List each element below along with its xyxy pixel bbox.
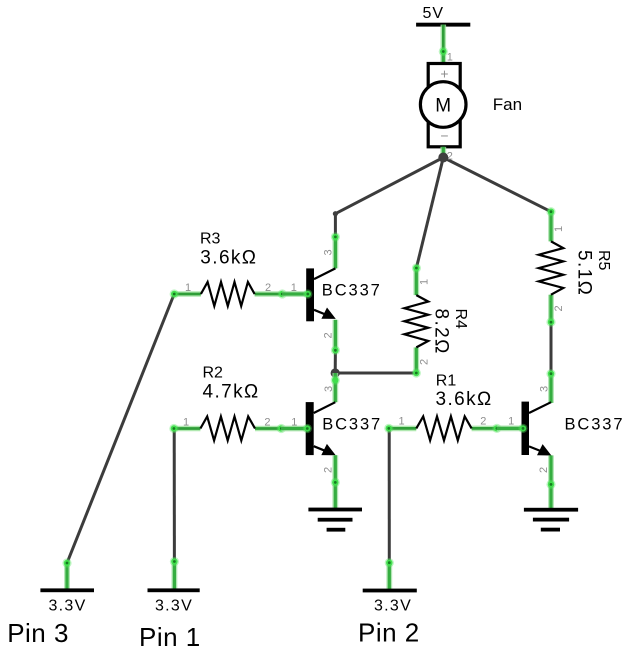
- ground G2: [524, 508, 578, 532]
- svg-text:2: 2: [265, 282, 271, 294]
- svg-text:1: 1: [399, 416, 405, 428]
- resistor R1 label: [436, 372, 493, 409]
- ground G1: [308, 508, 362, 532]
- resistor R4 label (rotated): [431, 309, 469, 355]
- 3.3V supply S2 (Pin 1): [148, 557, 200, 615]
- bend point (Q1 collector branch): [333, 211, 338, 216]
- svg-text:3.3V: 3.3V: [155, 598, 193, 615]
- svg-text:8.2Ω: 8.2Ω: [431, 309, 452, 355]
- resistor R3: [170, 282, 287, 306]
- svg-text:Fan: Fan: [493, 95, 522, 114]
- svg-text:BC337: BC337: [322, 282, 382, 300]
- svg-text:3: 3: [323, 386, 335, 392]
- svg-text:2: 2: [264, 417, 270, 429]
- wire: R1 pin2 to Q3 base: [497, 425, 522, 431]
- svg-text:1: 1: [291, 282, 297, 294]
- wire: junction A to R5 pin1: [443, 158, 551, 212]
- svg-text:R2: R2: [203, 364, 224, 381]
- svg-text:5V: 5V: [423, 5, 445, 22]
- Q3 emitter pin + wire to ground: [546, 455, 555, 509]
- wire: diagonal from R3 pin1 to 3.3V Pin3: [67, 294, 174, 563]
- svg-text:3.3V: 3.3V: [374, 598, 412, 615]
- resistor R5 label (rotated): [574, 250, 612, 296]
- svg-text:R1: R1: [436, 372, 457, 389]
- resistor R4: [404, 263, 428, 377]
- svg-text:2: 2: [480, 416, 486, 428]
- svg-text:3: 3: [323, 249, 335, 255]
- svg-text:M: M: [435, 95, 451, 116]
- Q1 collector pin stub: [331, 232, 340, 268]
- svg-text:BC337: BC337: [565, 415, 625, 433]
- svg-text:3.6kΩ: 3.6kΩ: [200, 247, 257, 268]
- transistor Q3 BC337: [522, 402, 552, 456]
- svg-text:3: 3: [539, 386, 551, 392]
- wire: junction A to R4 pin1: [416, 158, 443, 268]
- transistor Q2 BC337: [306, 402, 336, 455]
- svg-text:−: −: [440, 128, 448, 144]
- svg-text:3.3V: 3.3V: [48, 598, 86, 615]
- wire: bend to Q1 collector pin: [334, 214, 337, 237]
- svg-text:1: 1: [183, 417, 189, 429]
- svg-text:4.7kΩ: 4.7kΩ: [203, 382, 260, 403]
- wire: R3 pin2 to Q1 base: [282, 291, 306, 297]
- svg-text:2: 2: [322, 467, 334, 473]
- junction B: [331, 368, 340, 377]
- wire: R2 pin2 to Q2 base: [281, 426, 305, 432]
- svg-text:1: 1: [508, 416, 514, 428]
- wire: junction B to R4 pin2: [335, 372, 416, 375]
- svg-text:2: 2: [323, 332, 335, 338]
- wire: 5V to motor pin1: [440, 25, 446, 52]
- svg-text:BC337: BC337: [322, 415, 382, 433]
- svg-text:Pin 3: Pin 3: [7, 618, 69, 648]
- svg-text:5.1Ω: 5.1Ω: [574, 250, 595, 296]
- svg-text:Pin 1: Pin 1: [139, 622, 201, 652]
- svg-text:3.6kΩ: 3.6kΩ: [436, 389, 493, 410]
- svg-text:1: 1: [185, 282, 191, 294]
- svg-text:1: 1: [419, 279, 431, 285]
- Q2 emitter pin + wire to ground: [331, 455, 340, 509]
- 3.3V supply S1 (Pin 3): [40, 558, 94, 614]
- svg-text:Pin 2: Pin 2: [358, 618, 420, 648]
- wire: junction A to Q1 collector bend: [335, 158, 443, 214]
- Q3 collector pin stub: [546, 369, 555, 403]
- resistor R5: [539, 207, 564, 327]
- wire: R5 pin2 to Q3 collector pin: [550, 322, 553, 374]
- motor M1 (Fan): [420, 64, 466, 147]
- svg-text:+: +: [440, 66, 448, 82]
- motor pin1 stub: [439, 47, 448, 65]
- svg-text:1: 1: [447, 52, 453, 64]
- wire: vertical from R1 pin1 down to 3.3V Pin2: [388, 428, 391, 562]
- svg-text:R5: R5: [595, 250, 612, 271]
- resistor R1: [384, 416, 501, 440]
- base pin connection dots (on top): [303, 289, 528, 433]
- wire: Q1 emitter to junction B: [334, 350, 337, 373]
- svg-text:1: 1: [291, 417, 297, 429]
- svg-text:2: 2: [553, 305, 565, 311]
- Q2 collector pin (from junction B): [331, 373, 340, 402]
- resistor R3 label: [200, 231, 257, 269]
- junction A (below motor): [438, 153, 448, 163]
- wire: vertical from R2 pin1 down to 3.3V Pin1: [173, 429, 176, 562]
- svg-text:2: 2: [538, 467, 550, 473]
- 3.3V supply S3 (Pin 2): [363, 558, 417, 614]
- transistor Q1 BC337: [306, 268, 336, 321]
- svg-text:R4: R4: [452, 309, 469, 330]
- svg-text:R3: R3: [200, 231, 221, 248]
- power symbol 5V: [416, 5, 470, 27]
- motor pin2 stub: [440, 147, 446, 158]
- resistor R2: [169, 417, 286, 441]
- resistor R2 label: [203, 364, 260, 402]
- Q1 emitter pin stub: [331, 320, 340, 355]
- svg-text:1: 1: [553, 226, 565, 232]
- svg-text:2: 2: [419, 359, 431, 365]
